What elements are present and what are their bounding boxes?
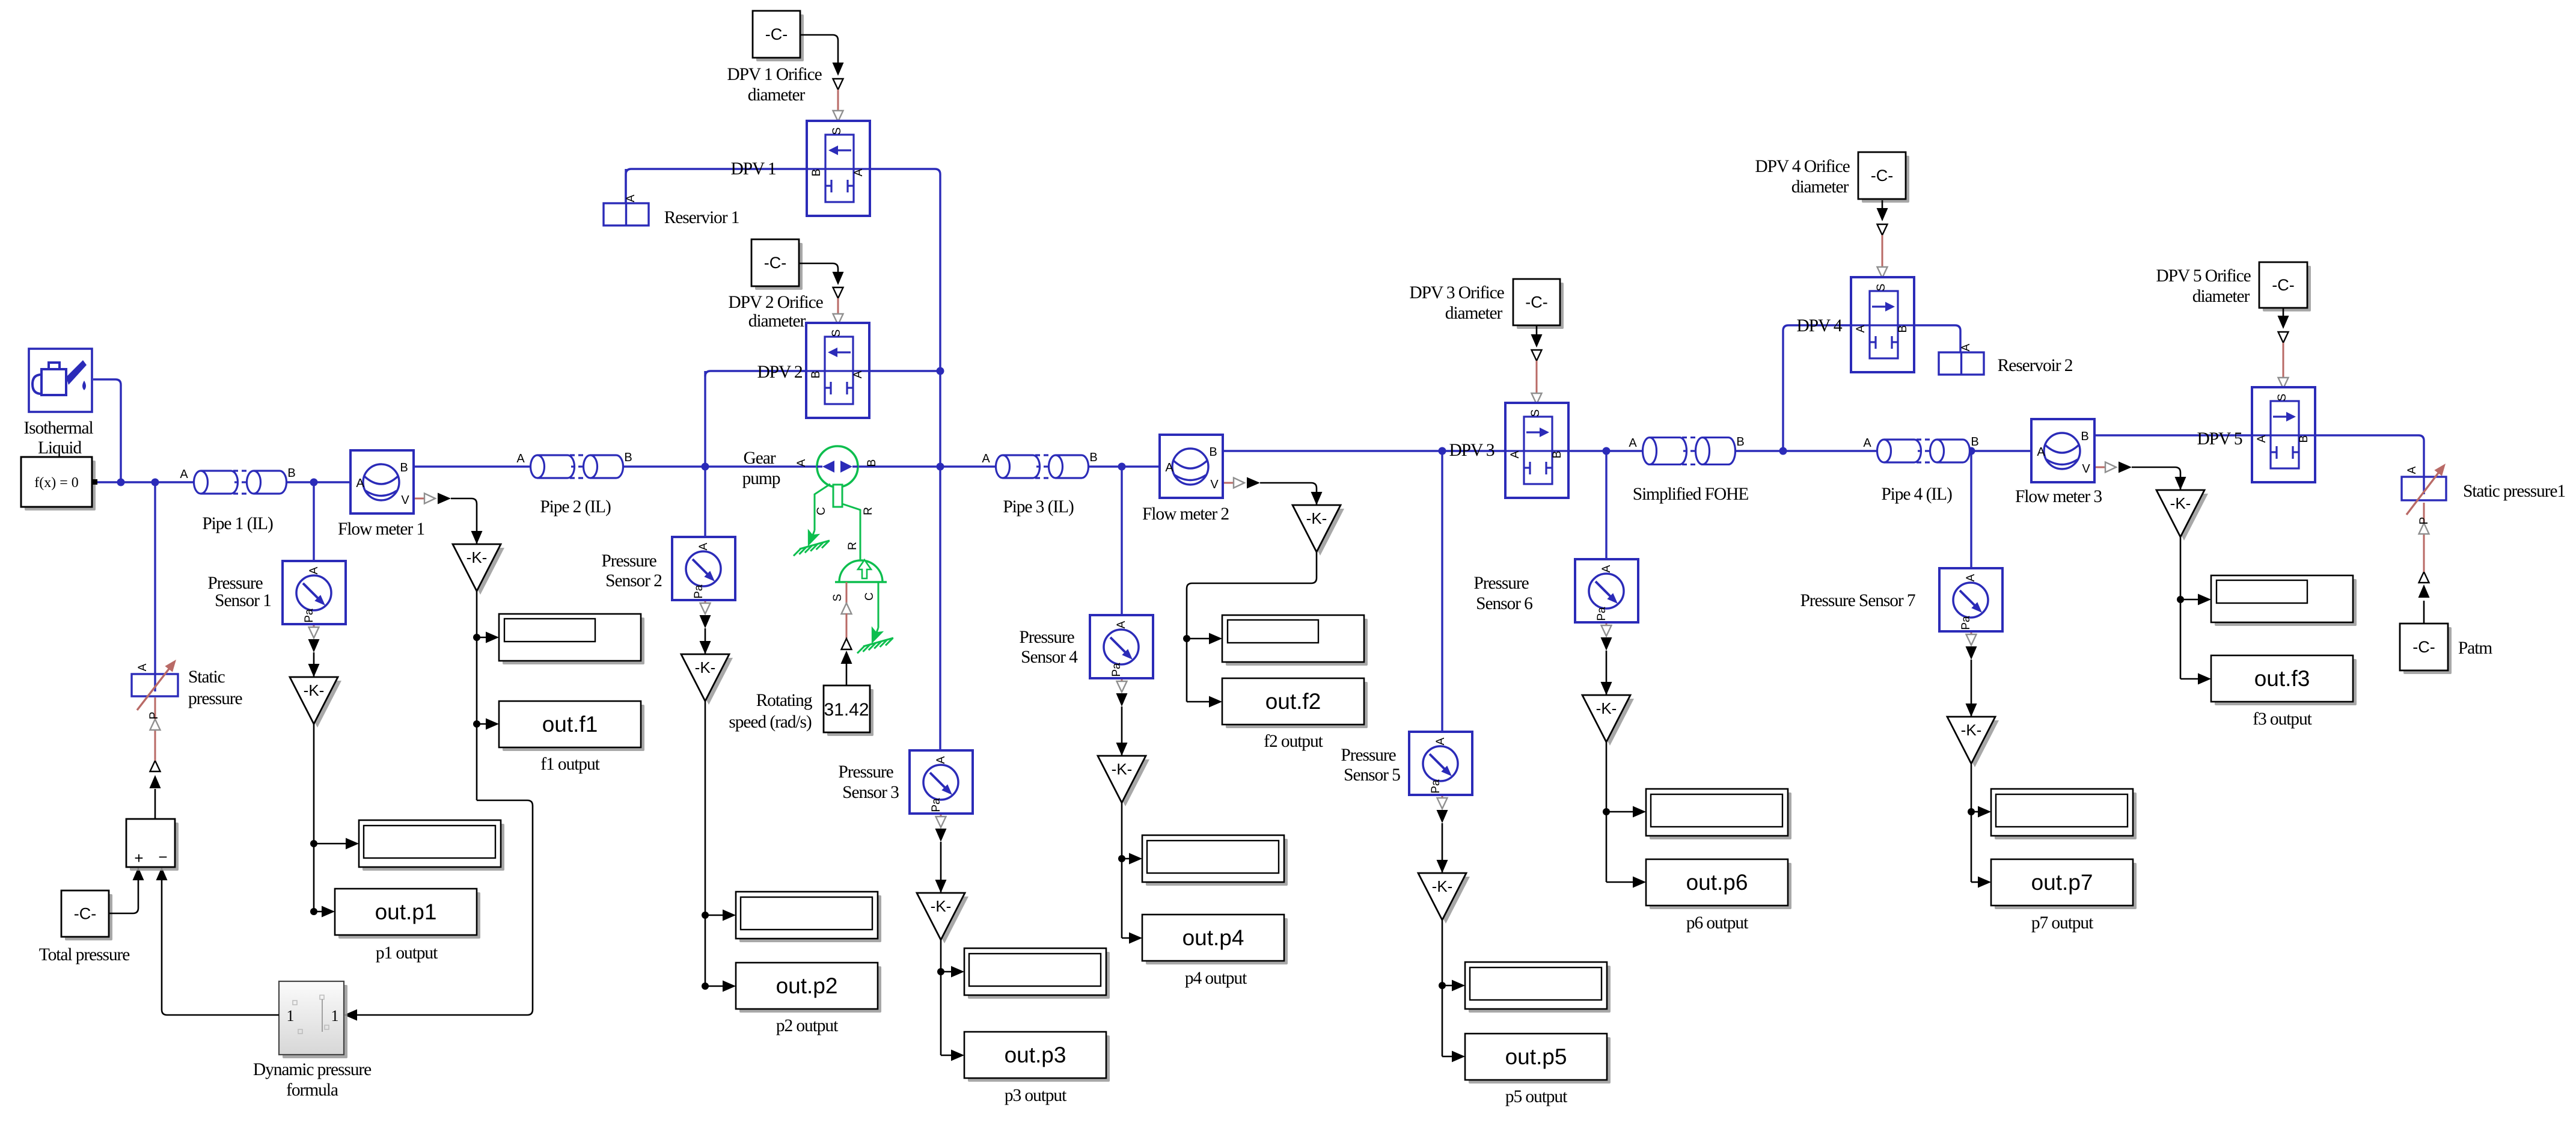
svg-text:out.p3: out.p3	[1005, 1043, 1066, 1067]
svg-text:A: A	[1600, 565, 1613, 572]
svg-text:Pipe 4 (IL): Pipe 4 (IL)	[1881, 485, 1952, 504]
svg-text:A: A	[625, 194, 637, 202]
svg-text:B: B	[1971, 435, 1978, 449]
svg-text:S: S	[831, 594, 844, 602]
svg-text:R: R	[862, 507, 875, 515]
svg-text:A: A	[795, 459, 808, 467]
svg-text:B: B	[810, 371, 822, 379]
svg-text:-K-: -K-	[2170, 494, 2191, 512]
svg-text:S: S	[831, 127, 843, 135]
svg-text:A: A	[180, 468, 188, 481]
svg-text:DPV 5: DPV 5	[2197, 429, 2242, 449]
svg-text:p6 output: p6 output	[1686, 913, 1749, 933]
svg-text:formula: formula	[286, 1081, 338, 1100]
svg-text:p4 output: p4 output	[1185, 969, 1247, 988]
svg-text:B: B	[2298, 435, 2310, 443]
svg-text:Sensor 5: Sensor 5	[1344, 765, 1400, 785]
svg-text:B: B	[400, 461, 408, 474]
svg-text:Gear: Gear	[744, 449, 776, 468]
svg-text:Isothermal: Isothermal	[23, 418, 93, 438]
svg-text:S: S	[1875, 284, 1888, 292]
svg-text:V: V	[1210, 478, 1219, 491]
svg-text:S: S	[1529, 409, 1542, 417]
svg-text:Flow meter 1: Flow meter 1	[338, 520, 424, 539]
svg-text:-C-: -C-	[2272, 276, 2294, 294]
svg-text:Pa: Pa	[1430, 779, 1442, 794]
svg-text:out.p7: out.p7	[2031, 870, 2093, 895]
svg-text:A: A	[308, 566, 320, 574]
svg-text:Patm: Patm	[2458, 639, 2492, 658]
svg-text:DPV 5 Orifice: DPV 5 Orifice	[2156, 266, 2251, 286]
svg-text:B: B	[1736, 435, 1744, 449]
svg-text:-C-: -C-	[74, 905, 96, 923]
svg-text:Pressure: Pressure	[207, 574, 263, 593]
svg-text:Sensor 1: Sensor 1	[215, 591, 271, 610]
svg-text:A: A	[1115, 621, 1128, 628]
svg-text:B: B	[2081, 430, 2088, 443]
svg-text:Dynamic pressure: Dynamic pressure	[253, 1060, 372, 1079]
svg-text:Pressure: Pressure	[601, 551, 656, 571]
svg-text:out.f1: out.f1	[542, 712, 598, 737]
svg-text:C: C	[815, 507, 828, 515]
svg-text:diameter: diameter	[1445, 304, 1503, 323]
svg-text:-C-: -C-	[764, 254, 786, 272]
svg-text:-K-: -K-	[931, 897, 952, 915]
svg-text:-K-: -K-	[1112, 760, 1133, 778]
svg-text:−: −	[158, 848, 167, 866]
svg-text:Static: Static	[188, 667, 225, 687]
svg-text:f3 output: f3 output	[2253, 710, 2312, 729]
svg-text:A: A	[1165, 461, 1173, 474]
svg-text:B: B	[810, 169, 823, 177]
svg-text:A: A	[1509, 450, 1522, 458]
svg-text:DPV 1 Orifice: DPV 1 Orifice	[727, 65, 822, 84]
svg-text:DPV 4 Orifice: DPV 4 Orifice	[1755, 157, 1850, 176]
svg-text:-C-: -C-	[1525, 293, 1547, 311]
svg-text:B: B	[1209, 446, 1217, 459]
svg-text:Pipe 2 (IL): Pipe 2 (IL)	[540, 497, 611, 517]
svg-text:A: A	[982, 452, 990, 465]
svg-text:diameter: diameter	[748, 85, 806, 105]
svg-text:diameter: diameter	[748, 311, 806, 331]
svg-text:speed (rad/s): speed (rad/s)	[729, 713, 812, 732]
svg-text:A: A	[1434, 737, 1447, 745]
svg-text:Pa: Pa	[1595, 607, 1608, 621]
svg-text:Reservior 1: Reservior 1	[664, 208, 739, 227]
svg-text:B: B	[624, 451, 632, 464]
svg-text:Pressure Sensor 7: Pressure Sensor 7	[1800, 591, 1915, 610]
svg-text:Sensor 4: Sensor 4	[1021, 648, 1078, 667]
svg-text:A: A	[1965, 574, 1977, 581]
svg-text:f1 output: f1 output	[540, 755, 600, 774]
svg-text:A: A	[1629, 437, 1637, 450]
svg-text:B: B	[866, 459, 878, 467]
svg-text:Sensor 2: Sensor 2	[605, 571, 662, 590]
svg-text:diameter: diameter	[2192, 287, 2250, 306]
svg-text:out.p6: out.p6	[1686, 870, 1748, 895]
svg-text:DPV 3 Orifice: DPV 3 Orifice	[1409, 283, 1504, 302]
svg-text:C: C	[863, 592, 876, 601]
svg-text:p5 output: p5 output	[1505, 1087, 1568, 1106]
svg-text:f2 output: f2 output	[1264, 732, 1323, 751]
svg-text:out.p5: out.p5	[1505, 1044, 1567, 1069]
svg-text:Simplified FOHE: Simplified FOHE	[1633, 485, 1749, 504]
svg-text:+: +	[134, 849, 143, 867]
svg-text:Pa: Pa	[930, 798, 943, 812]
svg-text:Rotating: Rotating	[756, 691, 813, 710]
svg-text:Static pressure1: Static pressure1	[2463, 482, 2565, 501]
svg-text:Flow meter 3: Flow meter 3	[2015, 487, 2102, 506]
svg-text:-C-: -C-	[1871, 167, 1893, 185]
svg-text:-K-: -K-	[304, 681, 325, 699]
svg-text:R: R	[846, 542, 859, 550]
svg-text:-K-: -K-	[1306, 509, 1327, 527]
svg-text:A: A	[1855, 325, 1867, 333]
svg-text:A: A	[852, 370, 864, 378]
svg-text:A: A	[2406, 466, 2418, 474]
svg-text:Pipe 1 (IL): Pipe 1 (IL)	[202, 514, 273, 533]
svg-text:Flow meter 2: Flow meter 2	[1142, 504, 1229, 524]
svg-text:out.p2: out.p2	[776, 973, 838, 998]
svg-text:A: A	[852, 168, 865, 176]
svg-text:-K-: -K-	[467, 548, 488, 566]
svg-text:p1 output: p1 output	[376, 943, 438, 963]
svg-text:A: A	[1960, 343, 1972, 351]
svg-text:B: B	[287, 467, 295, 480]
svg-text:B: B	[1897, 325, 1909, 333]
svg-text:S: S	[2276, 394, 2289, 402]
svg-text:-K-: -K-	[1961, 721, 1982, 739]
svg-text:Pa: Pa	[1960, 616, 1972, 630]
svg-text:DPV 2 Orifice: DPV 2 Orifice	[728, 293, 823, 312]
svg-text:Sensor 3: Sensor 3	[842, 783, 899, 802]
svg-text:Pa: Pa	[303, 609, 316, 623]
svg-text:diameter: diameter	[1791, 177, 1849, 197]
svg-text:A: A	[935, 756, 947, 764]
svg-text:Liquid: Liquid	[38, 438, 82, 458]
svg-text:DPV 2: DPV 2	[757, 363, 802, 382]
svg-text:Pa: Pa	[1110, 663, 1123, 677]
svg-text:p3 output: p3 output	[1005, 1086, 1067, 1105]
svg-text:Pressure: Pressure	[1341, 746, 1396, 765]
svg-text:-C-: -C-	[765, 25, 788, 43]
svg-text:-C-: -C-	[2412, 638, 2435, 656]
svg-text:pump: pump	[742, 469, 780, 488]
svg-text:out.f3: out.f3	[2254, 666, 2310, 691]
svg-text:P: P	[148, 712, 161, 720]
svg-text:1: 1	[287, 1007, 295, 1025]
svg-text:-K-: -K-	[695, 658, 716, 676]
svg-text:V: V	[401, 494, 409, 507]
svg-text:-K-: -K-	[1432, 877, 1453, 895]
svg-text:out.f2: out.f2	[1265, 689, 1321, 714]
svg-text:A: A	[356, 477, 364, 490]
svg-text:Reservoir 2: Reservoir 2	[1998, 356, 2073, 375]
svg-text:DPV 3: DPV 3	[1449, 441, 1494, 460]
svg-text:A: A	[2037, 446, 2045, 459]
svg-text:A: A	[697, 542, 710, 550]
svg-text:A: A	[1863, 437, 1871, 450]
svg-text:Pressure: Pressure	[1019, 628, 1074, 647]
svg-text:Sensor 6: Sensor 6	[1476, 594, 1532, 613]
svg-text:out.p4: out.p4	[1182, 925, 1244, 950]
svg-text:f(x) = 0: f(x) = 0	[34, 475, 79, 491]
svg-text:A: A	[136, 663, 149, 671]
svg-text:pressure: pressure	[188, 689, 243, 708]
svg-text:A: A	[516, 452, 525, 465]
svg-text:Total pressure: Total pressure	[39, 945, 130, 964]
svg-text:S: S	[830, 330, 843, 337]
svg-text:out.p1: out.p1	[375, 900, 437, 924]
svg-text:DPV 4: DPV 4	[1796, 316, 1842, 336]
svg-text:Pressure: Pressure	[838, 762, 893, 782]
svg-text:Pipe 3 (IL): Pipe 3 (IL)	[1003, 497, 1074, 517]
svg-text:P: P	[2418, 517, 2431, 525]
svg-text:A: A	[2256, 435, 2268, 443]
svg-text:Pressure: Pressure	[1473, 574, 1529, 593]
svg-text:B: B	[1089, 451, 1097, 464]
svg-text:-K-: -K-	[1596, 699, 1617, 717]
svg-text:B: B	[1551, 451, 1564, 459]
svg-text:31.42: 31.42	[824, 700, 869, 720]
svg-text:V: V	[2082, 462, 2090, 476]
svg-text:1: 1	[331, 1007, 339, 1025]
svg-text:p2 output: p2 output	[776, 1016, 839, 1035]
svg-text:Pa: Pa	[693, 584, 705, 599]
svg-text:p7 output: p7 output	[2031, 913, 2094, 933]
svg-text:DPV 1: DPV 1	[730, 159, 776, 179]
